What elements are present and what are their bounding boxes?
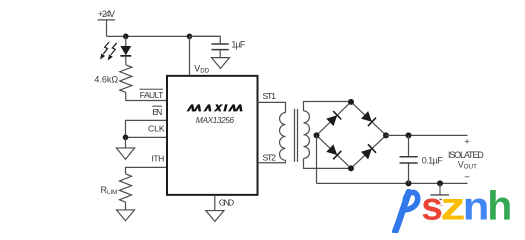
wire resistor to FAULT pin [126,92,167,100]
svg-text:1µF: 1µF [231,40,246,50]
svg-text:LIM: LIM [107,189,117,196]
wire LED cathode to resistor [125,56,127,65]
watermark P [395,192,417,231]
transformer T1 primary winding [280,113,286,161]
pin label VDD [194,64,209,75]
wire output top rail [386,134,468,136]
resistor 4.6k ohm [94,65,131,93]
svg-text:n: n [463,185,490,228]
capacitor C1 1uF [212,40,246,50]
ground (RLIM) [117,210,135,221]
svg-text:MAX13256: MAX13256 [196,115,235,125]
wire EN pin [126,120,167,137]
node C2 bottom [406,180,412,186]
wire secondary bottom to bridge [304,158,352,168]
svg-text:ISOLATED: ISOLATED [448,150,484,160]
wire CLK pin [126,136,167,138]
diode D3 lower-left [326,144,341,159]
ground (C1) [212,58,230,69]
node LED branch [123,34,129,40]
svg-text:4.6kΩ: 4.6kΩ [94,74,118,84]
node EN/CLK junction [123,135,129,141]
svg-text:OUT: OUT [464,164,477,171]
IC U1 MAX13256 [167,76,258,195]
wire secondary top to bridge [304,102,352,111]
node C2 top [406,132,412,138]
LED light arrows [103,42,116,55]
diode D2 upper-right [361,111,376,126]
ground (IC GND) [206,211,224,222]
node bridge left [314,132,320,138]
LED D1 [120,46,131,56]
wire C2 leads [408,135,410,183]
svg-text:ST1: ST1 [263,91,277,101]
node earth tap [437,180,443,186]
MAXIM logo [187,104,245,111]
wire ST2 [258,160,286,163]
svg-text:−: − [464,172,470,183]
svg-text:DD: DD [200,68,209,75]
wire bridge left to bottom rail [316,135,318,183]
svg-text:0.1µF: 0.1µF [422,155,444,165]
wire +24V down [106,20,108,36]
wire VDD pin [189,36,191,75]
pin label EN [152,106,162,117]
wire junction to ground [125,137,127,148]
earth ground (isolated) [431,183,450,205]
wire GND pin [214,195,216,210]
pin label FAULT [140,89,164,100]
wire RLIM to ground [125,202,127,210]
bridge edges [317,102,387,169]
label ISOLATED VOUT [448,150,484,171]
wire ST1 [258,102,286,112]
wire LED anode [125,36,127,46]
supply +24V [98,9,116,20]
diode D1 upper-left [326,111,341,126]
svg-text:GND: GND [219,198,234,208]
svg-text:EN: EN [152,107,162,117]
node bridge right [383,132,389,138]
svg-text:ITH: ITH [152,154,165,164]
node bridge bottom [348,165,354,171]
transformer T1 core [295,109,298,162]
wire to capacitor C1 [190,36,221,43]
svg-text:+: + [464,136,470,147]
wire bottom rail [317,182,468,184]
resistor RLIM [101,174,132,202]
svg-text:FAULT: FAULT [140,90,164,100]
diode D4 lower-right [361,144,376,159]
capacitor C2 0.1uF [400,155,444,165]
transformer T1 secondary winding [304,111,310,159]
svg-text:+24V: +24V [98,9,115,19]
svg-text:h: h [487,183,512,229]
svg-text:CLK: CLK [148,124,165,134]
wire top rail [107,35,221,37]
wire C1 to ground [219,50,221,58]
ground (CLK) [116,148,134,159]
node bridge top [348,99,354,105]
node VDD branch [187,34,193,40]
wire ITH pin [126,167,167,174]
svg-text:ST2: ST2 [263,153,277,163]
